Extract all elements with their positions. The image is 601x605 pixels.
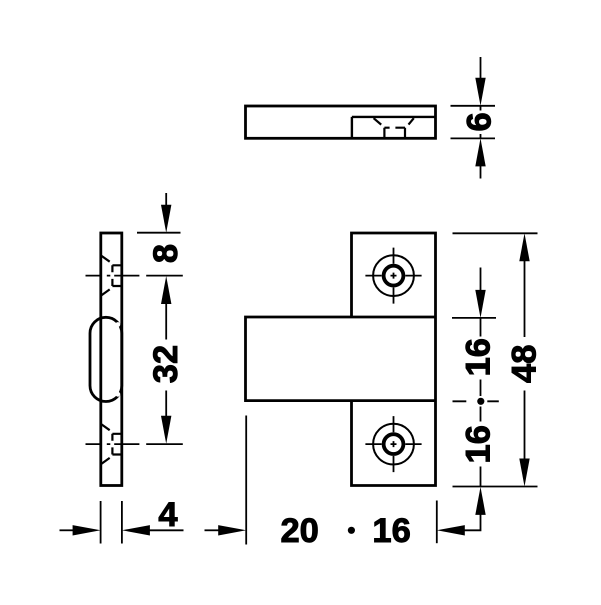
side view bottom hole countersink slopes (101, 424, 110, 464)
front view bottom hole outer circle (373, 424, 414, 465)
front view bottom hole crosshair (365, 416, 421, 472)
right chain stub 3 (480, 407, 482, 422)
right dims extension line bar bottom (453, 400, 499, 402)
front view top hole crosshair (365, 248, 421, 304)
right dims extension line plate bottom (453, 486, 538, 488)
top view step edge (352, 117, 436, 138)
svg-text:6: 6 (461, 112, 499, 131)
top view countersink left slope (374, 118, 382, 124)
svg-text:16: 16 (460, 338, 498, 376)
right chain stub 2 (480, 380, 482, 397)
front view stud bar (246, 317, 436, 401)
right chain bottom arrow tail corner (464, 514, 480, 530)
side view stud (pill) (90, 317, 122, 401)
dim 6 extension lines (451, 106, 496, 139)
side view top hole counterbore (112, 265, 121, 286)
right chain stub 1 (480, 318, 482, 337)
svg-text:32: 32 (147, 345, 185, 383)
side view top hole countersink slopes (101, 256, 110, 296)
side view bottom hole centerline (86, 443, 140, 445)
svg-text:4: 4 (158, 496, 177, 534)
dim 8 extension line plate top (137, 232, 181, 234)
svg-text:16: 16 (372, 512, 410, 550)
dim 48 line lower (524, 391, 526, 460)
right chain top arrow (480, 268, 482, 291)
stud arc gap top (116, 322, 121, 327)
side view bottom hole counterbore (112, 434, 121, 455)
front view top hole outer circle (373, 255, 414, 296)
dim 32 extension line bottom hole center (146, 443, 183, 445)
front view bottom hole bore ring (384, 434, 404, 454)
dim 20 left arrow (205, 529, 219, 531)
dim 6 line stubs (480, 106, 482, 139)
dim 6 top arrow (480, 57, 482, 79)
top view hole bore walls (384, 128, 405, 138)
top view hole bore top edges (384, 127, 405, 129)
right dims extension line plate top (453, 232, 538, 234)
top view outline (246, 106, 436, 138)
dim 4 right arrow (122, 525, 150, 535)
bottom chain boundary dot (348, 527, 355, 534)
dim 32 line lower (165, 391, 167, 417)
dim 4 extension lines (101, 501, 122, 544)
right dims extension line bar top (452, 317, 496, 319)
front view top hole bore ring (384, 266, 404, 286)
svg-text:16: 16 (460, 425, 498, 463)
dim 16 bottom right arrow (437, 525, 465, 535)
bottom dims left extension line (245, 416, 247, 545)
top view countersink right slope (409, 118, 414, 124)
dim 32 top arrow (161, 276, 171, 304)
dim 8 top arrow (165, 193, 167, 205)
dim 48 bottom arrow (519, 459, 529, 487)
dim 48 top arrow (519, 233, 529, 261)
dim 4 left arrow (60, 529, 74, 531)
dim 32 line upper (165, 304, 167, 340)
right chain bottom arrow (475, 487, 485, 515)
right chain stub 4 (480, 467, 482, 487)
stud arc gap bottom (116, 392, 121, 397)
svg-text:8: 8 (147, 244, 185, 263)
svg-text:20: 20 (281, 512, 319, 550)
front view plate outline (352, 233, 436, 486)
dim 6 bottom arrow (480, 166, 482, 179)
right chain boundary dot (477, 398, 484, 405)
dim 48 line upper (524, 261, 526, 337)
bottom dims right extension line (436, 501, 438, 544)
side view top hole centerline (86, 275, 140, 277)
dim 32 bottom arrow (161, 416, 171, 444)
svg-text:48: 48 (506, 345, 544, 383)
dim 8 extension line hole center (146, 275, 183, 277)
side view plate (101, 233, 122, 486)
